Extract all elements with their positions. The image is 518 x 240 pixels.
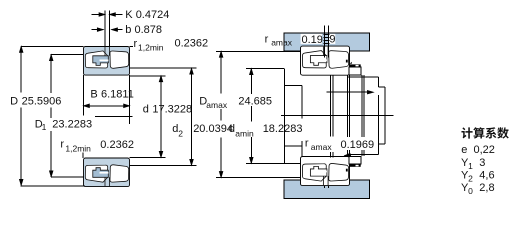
- extension line D bottom: [21, 185, 85, 187]
- label r1,2min top: [134, 37, 209, 52]
- shaft hub edge: [301, 85, 303, 118]
- svg-text:2: 2: [178, 128, 183, 138]
- svg-text:e: e: [461, 144, 467, 156]
- shaft hub edge lower: [301, 141, 303, 157]
- svg-text:3: 3: [479, 157, 485, 169]
- svg-text:amax: amax: [271, 37, 293, 47]
- svg-text:r: r: [134, 38, 138, 50]
- svg-text:K 0.4724: K 0.4724: [125, 9, 169, 21]
- label r1,2min bottom: [60, 139, 134, 158]
- housing bottom: [284, 180, 370, 198]
- extension line D top: [21, 45, 83, 47]
- svg-text:D: D: [10, 95, 18, 107]
- dimension damin: [229, 69, 303, 164]
- ra fillet arrow bottom: [344, 153, 351, 156]
- svg-text:1: 1: [42, 122, 47, 132]
- shaft step top: [284, 84, 302, 86]
- svg-text:17.3228: 17.3228: [152, 104, 192, 116]
- svg-text:23.2283: 23.2283: [52, 119, 92, 131]
- washer bent tab top: [346, 60, 348, 63]
- svg-text:4,6: 4,6: [479, 169, 494, 181]
- svg-text:2,8: 2,8: [479, 182, 494, 194]
- washer bent tab bottom: [346, 169, 348, 172]
- lubrication hole lines K: [105, 11, 109, 47]
- svg-text:b 0.878: b 0.878: [125, 24, 162, 36]
- svg-text:1,2min: 1,2min: [138, 42, 164, 52]
- svg-text:B: B: [90, 89, 97, 101]
- nut bottom: [349, 156, 361, 164]
- svg-text:amax: amax: [206, 100, 228, 110]
- extension line D top right: [130, 45, 134, 47]
- svg-text:1,2min: 1,2min: [65, 144, 91, 154]
- svg-text:0.19: 0.19: [302, 34, 323, 46]
- svg-text:r: r: [305, 137, 309, 149]
- shaft end face: [283, 69, 285, 164]
- svg-text:0: 0: [468, 186, 473, 196]
- lube hole tick right bottom: [323, 186, 325, 188]
- bearing right top: [301, 46, 350, 75]
- dimension Damax: [199, 51, 301, 177]
- washer cap bottom: [349, 164, 361, 167]
- svg-text:r: r: [265, 34, 269, 46]
- shaft profile right: [347, 77, 385, 154]
- nut and washer edges continuing through middle: [347, 75, 364, 156]
- bearing bottom section (mirrored): [84, 158, 130, 187]
- svg-text:amax: amax: [311, 142, 333, 152]
- bearing right bottom: [301, 157, 350, 186]
- svg-text:25.5906: 25.5906: [22, 95, 62, 107]
- svg-text:6.1811: 6.1811: [101, 89, 134, 101]
- label ra max top: [265, 34, 336, 48]
- svg-text:0,22: 0,22: [474, 144, 495, 156]
- svg-text:2: 2: [468, 174, 473, 184]
- dimension d2: [130, 68, 233, 165]
- dimension K: [92, 9, 170, 21]
- svg-text:0.2362: 0.2362: [100, 139, 134, 151]
- svg-text:20.0394: 20.0394: [193, 123, 233, 135]
- dimension line D: [10, 46, 61, 185]
- svg-text:0.1969: 0.1969: [341, 139, 375, 151]
- svg-text:1: 1: [468, 161, 473, 171]
- housing top: [284, 33, 370, 51]
- lube lines right top with ladder: [301, 26, 336, 58]
- dimension b: [92, 24, 163, 36]
- svg-text:d: d: [229, 123, 235, 135]
- ra fillet leader arrow top: [327, 91, 374, 94]
- nut top: [349, 67, 361, 75]
- svg-text:9: 9: [329, 34, 335, 46]
- svg-text:d: d: [143, 104, 149, 116]
- shaft step bottom: [284, 145, 302, 147]
- washer cap top: [349, 64, 361, 67]
- dimension d: [130, 76, 193, 158]
- extension line D1 bottom: [51, 176, 84, 178]
- bearing top section: [84, 47, 130, 76]
- extension line D1 top: [51, 54, 84, 56]
- svg-text:amin: amin: [235, 128, 254, 138]
- label ra max bottom: [305, 137, 374, 152]
- centerline: [95, 116, 132, 118]
- svg-text:r: r: [60, 139, 64, 151]
- centerline right figure: [281, 115, 394, 117]
- svg-text:0.2362: 0.2362: [175, 37, 209, 49]
- svg-text:24.685: 24.685: [238, 95, 272, 107]
- dimension B: [83, 75, 133, 124]
- adapter sleeve slit pair: [330, 75, 332, 157]
- dimension line D1: [35, 55, 92, 177]
- svg-text:18.2283: 18.2283: [263, 123, 303, 135]
- title 计算系数 (calculation factors) drawn as vector outlines: [461, 127, 508, 138]
